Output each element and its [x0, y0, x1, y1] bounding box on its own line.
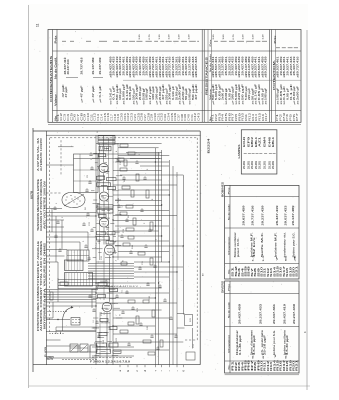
resistor boxes: [50, 144, 195, 360]
svg-text:POTENTIOM.: POTENTIOM.: [273, 59, 276, 90]
svg-text:C42: C42: [193, 112, 197, 121]
svg-text:pour O.C.: pour O.C.: [238, 237, 240, 258]
condensateurs code entries: [64, 55, 299, 77]
lampes dashes: [244, 153, 276, 155]
svg-text:R17: R17: [264, 112, 268, 121]
svg-text:E446: E446: [268, 136, 271, 147]
bobines code entries: [242, 205, 295, 226]
svg-text:F 2003 A 1.2.3.4.5.6.7.8.9: F 2003 A 1.2.3.4.5.6.7.8.9: [90, 360, 131, 364]
coil L1: [99, 146, 111, 151]
spine wire right: [112, 135, 114, 365]
svg-text:R6: R6: [227, 112, 231, 121]
lampes tube types: [243, 135, 275, 147]
svg-text:S21: S21: [296, 264, 299, 277]
capacitor marks: [53, 152, 177, 349]
terminal labels: [119, 365, 185, 372]
svg-text:No.: No.: [228, 364, 230, 370]
scan speckle: [34, 31, 299, 379]
svg-text:452 kc/s: 452 kc/s: [253, 236, 256, 258]
tube V2 EF9: [99, 192, 108, 201]
svg-text:bobine M.F.: bobine M.F.: [275, 232, 277, 258]
svg-text:C40: C40: [187, 113, 191, 121]
svg-text:28.437.419: 28.437.419: [276, 205, 279, 226]
svg-text:Bobine oscillateur: Bobine oscillateur: [234, 232, 237, 257]
svg-text:Désignation: Désignation: [227, 334, 230, 353]
svg-text:R14: R14: [254, 113, 258, 121]
bottom tick row: [62, 359, 97, 361]
svg-text:47 µµF: 47 µµF: [81, 85, 84, 98]
spine reinforcement wires: [100, 138, 111, 352]
svg-text:P7: P7: [295, 112, 299, 121]
svg-text:29.237.439: 29.237.439: [99, 57, 102, 75]
tuning gang: [70, 344, 97, 352]
svg-text:C4: C4: [66, 113, 70, 121]
svg-text:29.037.433: 29.037.433: [284, 205, 287, 226]
top bus wire: [46, 134, 200, 136]
svg-text:R10: R10: [241, 112, 245, 121]
condensateurs designators: [56, 112, 299, 121]
tube V4 EBL1: [105, 245, 115, 255]
condensateurs price dashes: [62, 34, 298, 48]
tube V3 EBF2: [99, 218, 108, 227]
svg-text:MOYENNES 0.43 A. VALEURS EN OH: MOYENNES 0.43 A. VALEURS EN OHMS: [43, 242, 46, 329]
condensateurs value entries: [62, 83, 299, 105]
left bus wires: [44, 290, 96, 303]
svg-text:C36: C36: [173, 112, 177, 121]
svg-text:25.281: 25.281: [247, 160, 250, 169]
svg-text:B2224: B2224: [207, 138, 211, 154]
svg-text:3.5-30 µµF: 3.5-30 µµF: [254, 334, 256, 355]
svg-text:6078: 6078: [29, 191, 33, 199]
svg-text:transformateur réct.: transformateur réct.: [283, 232, 286, 257]
divers description entries: [236, 329, 289, 359]
svg-text:Prix: Prix: [54, 34, 57, 43]
detector network boxes: [98, 154, 118, 336]
bobines designators: [232, 264, 299, 277]
svg-text:28.237.433: 28.237.433: [195, 55, 198, 75]
svg-text:25.281: 25.281: [255, 160, 258, 169]
coupling network V3: [97, 231, 116, 240]
svg-text:29.737.416: 29.737.416: [81, 57, 84, 75]
svg-text:25.281: 25.281: [272, 160, 275, 169]
contact dots: [48, 311, 67, 334]
legend block 1: [37, 137, 43, 171]
svg-text:EBF2: EBF2: [251, 136, 254, 147]
svg-text:Selfs M.F.: Selfs M.F.: [262, 232, 264, 258]
resistances section title: [204, 38, 212, 121]
svg-text:bobine pour S.G.: bobine pour S.G.: [274, 330, 276, 355]
svg-text:C10: C10: [86, 112, 90, 121]
lampes table frame: [241, 130, 277, 174]
page bottom edge: [28, 385, 310, 387]
svg-text:C12: C12: [93, 112, 97, 121]
drive drum: [56, 318, 110, 335]
svg-text:29.137.489: 29.137.489: [92, 57, 95, 75]
component labels: [56, 131, 195, 348]
rectifier network boxes: [92, 343, 134, 356]
svg-text:C20: C20: [120, 112, 124, 121]
svg-text:Déviat. d'ajustement: Déviat. d'ajustement: [250, 330, 253, 355]
svg-text:bobine M.F.: bobine M.F.: [251, 232, 253, 258]
code-value separator faint: [123, 79, 301, 81]
svg-text:25.281: 25.281: [268, 160, 271, 169]
section boundary dashed: [46, 138, 197, 340]
svg-text:No de Code: No de Code: [228, 203, 230, 220]
dial drive assembly: [62, 192, 85, 207]
divers headers: [227, 282, 230, 369]
svg-text:C16: C16: [106, 112, 110, 121]
svg-text:29.737.416: 29.737.416: [296, 55, 299, 75]
potentiometres section title: [273, 59, 276, 90]
svg-text:bobine oscillante: bobine oscillante: [283, 329, 286, 355]
grid network V1: [97, 176, 117, 186]
condensateurs table frame: [48, 30, 301, 125]
svg-text:3.5-30 µµF: 3.5-30 µµF: [287, 334, 289, 355]
svg-text:No.: No.: [228, 268, 230, 274]
spine wire mid: [100, 135, 118, 365]
svg-text:C14: C14: [99, 113, 103, 121]
svg-text:EBL1: EBL1: [272, 136, 275, 147]
svg-text:28.437.419: 28.437.419: [284, 303, 287, 324]
svg-text:C24: C24: [133, 113, 137, 121]
legend block 3: [37, 240, 47, 331]
svg-text:C8: C8: [79, 112, 83, 121]
svg-text:P5: P5: [289, 113, 293, 121]
svg-text:25.281: 25.281: [243, 160, 246, 169]
svg-text:25-26 µµF: 25-26 µµF: [265, 334, 267, 355]
svg-text:No de Codif.: No de Codif.: [55, 56, 57, 79]
svg-text:0.1-36 µµF: 0.1-36 µµF: [240, 334, 242, 355]
svg-text:29.637.459: 29.637.459: [242, 205, 245, 226]
svg-text:EBL1: EBL1: [255, 136, 258, 147]
condensateurs headers: [54, 34, 276, 120]
HT vertical wires: [155, 148, 183, 365]
bobines description entries: [234, 232, 297, 262]
svg-text:EF9: EF9: [247, 135, 250, 147]
svg-text:Régulateur: Régulateur: [236, 330, 239, 355]
svg-text:C43: C43: [197, 112, 201, 121]
svg-text:R2: R2: [214, 113, 218, 121]
svg-text:28.237.433: 28.237.433: [67, 59, 70, 75]
svg-text:25.281: 25.281: [251, 160, 254, 169]
ground hatch: [47, 357, 54, 361]
svg-text:R12: R12: [247, 112, 251, 121]
schematic left border: [32, 128, 34, 372]
svg-text:2x50 µF: 2x50 µF: [296, 85, 299, 100]
left vertical stubs: [52, 209, 92, 359]
svg-text:0.1 µF: 0.1 µF: [99, 85, 102, 98]
divers table frame: [225, 281, 299, 373]
spine micro labels: [93, 154, 125, 347]
antenna input box: [74, 154, 161, 193]
svg-text:47 µµF: 47 µµF: [65, 86, 68, 98]
svg-text:C30: C30: [153, 112, 157, 121]
svg-text:Valeur: Valeur: [55, 94, 57, 106]
svg-text:29.437.459: 29.437.459: [239, 303, 242, 324]
svg-text:Bobine pour S.G.: Bobine pour S.G.: [293, 232, 295, 257]
spine stub wires: [91, 144, 122, 356]
svg-text:AZ1: AZ1: [259, 136, 262, 147]
left pickup wires: [46, 147, 96, 358]
svg-text:DIVERS: DIVERS: [221, 281, 225, 293]
svg-text:C22: C22: [126, 112, 130, 121]
svg-text:P1: P1: [275, 113, 279, 121]
svg-text:R15: R15: [258, 112, 262, 121]
svg-text:C38: C38: [180, 113, 184, 121]
svg-text:C26: C26: [140, 112, 144, 121]
svg-text:Prix: Prix: [274, 34, 277, 43]
svg-text:11: 11: [36, 23, 40, 27]
svg-text:5.000 µµF: 5.000 µµF: [265, 87, 268, 100]
svg-text:29.237.439: 29.237.439: [262, 205, 265, 226]
svg-text:29.737.416: 29.737.416: [251, 205, 254, 226]
svg-text:LAMPES: LAMPES: [237, 144, 241, 158]
divers designators: [232, 358, 299, 371]
svg-text:R8: R8: [234, 113, 238, 121]
svg-text:C2: C2: [59, 112, 63, 121]
svg-text:25.281: 25.281: [259, 160, 262, 169]
rectifier box wires: [177, 314, 193, 349]
lampes codes: [243, 160, 275, 169]
page left edge: [28, 5, 30, 388]
tube V5 AZ1: [102, 302, 112, 312]
schematic frame: [33, 131, 200, 365]
bottom caption: [90, 358, 132, 364]
output transformer T3: [67, 250, 89, 261]
svg-text:No de Code: No de Code: [228, 301, 230, 318]
svg-text:29.137.489: 29.137.489: [292, 205, 295, 226]
svg-text:25.281: 25.281: [264, 160, 267, 169]
left bus rework: [58, 278, 110, 302]
dial pointer arc: [46, 306, 73, 331]
svg-text:EM4: EM4: [264, 136, 267, 147]
svg-text:C34: C34: [166, 112, 170, 121]
bobines headers: [227, 186, 230, 274]
svg-text:29.237.439: 29.237.439: [265, 55, 268, 75]
svg-text:29.237.439: 29.237.439: [293, 303, 296, 324]
svg-text:29.337.361: 29.337.361: [273, 303, 276, 324]
svg-text:ALTERNATIF 110/245V: ALTERNATIF 110/245V: [40, 137, 43, 171]
svg-text:R4: R4: [221, 113, 225, 121]
svg-text:ECH4: ECH4: [243, 136, 246, 147]
mains transformer T4: [65, 260, 93, 286]
svg-text:28.237.433: 28.237.433: [260, 303, 263, 324]
svg-text:R21: R21: [296, 358, 299, 371]
svg-text:BOBINES: BOBINES: [221, 182, 225, 197]
philips caption row: [96, 285, 139, 288]
svg-text:C18: C18: [113, 113, 117, 121]
svg-text:47 µµF: 47 µµF: [195, 83, 198, 100]
svg-text:C32: C32: [160, 112, 164, 121]
svg-text:AVEC VOLTMETRE 1000 O/V: AVEC VOLTMETRE 1000 O/V: [43, 180, 46, 229]
divers code entries: [239, 303, 297, 324]
svg-text:47 µµF: 47 µµF: [92, 85, 95, 98]
svg-text:C28: C28: [146, 112, 150, 121]
svg-text:ch. spécials: ch. spécials: [262, 329, 264, 355]
spine wire left: [95, 135, 97, 365]
svg-text:C6: C6: [73, 113, 77, 121]
bobines table frame: [225, 185, 299, 279]
svg-text:RESISTANCES: RESISTANCES: [204, 57, 208, 95]
supply wiring cluster: [88, 264, 134, 279]
page right rule: [306, 30, 308, 390]
svg-text:P3: P3: [282, 112, 286, 121]
anode bus wires: [96, 143, 183, 350]
IF transformer T1: [98, 136, 115, 144]
svg-text:Désignation: Désignation: [227, 236, 230, 255]
tube V1 ECH4: [99, 163, 108, 172]
IF transformer T2: [97, 205, 113, 213]
junction dots: [95, 161, 184, 326]
legend block 2: [37, 178, 47, 231]
svg-text:CONDENSATEURS: CONDENSATEURS: [49, 56, 53, 102]
